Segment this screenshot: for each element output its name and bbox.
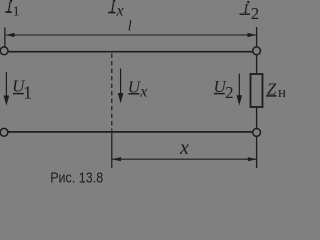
svg-text:2: 2 <box>225 83 234 102</box>
svg-text:x: x <box>116 3 124 20</box>
svg-text:2: 2 <box>251 4 259 23</box>
svg-text:1: 1 <box>23 83 32 103</box>
svg-text:Z: Z <box>267 79 277 98</box>
svg-text:1: 1 <box>13 5 20 20</box>
svg-text:x: x <box>139 84 147 101</box>
svg-text:l: l <box>128 18 132 34</box>
svg-text:Рис. 13.8: Рис. 13.8 <box>50 169 103 186</box>
svg-text:н: н <box>278 85 285 101</box>
svg-text:x: x <box>179 137 189 159</box>
